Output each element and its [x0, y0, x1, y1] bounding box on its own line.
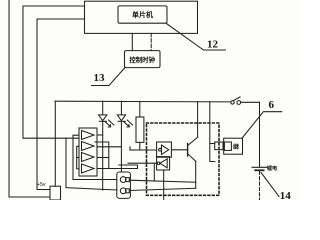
op-amp A1 [82, 131, 95, 140]
box bottom small (power module) [50, 186, 61, 200]
leader label 12 [166, 23, 226, 50]
op-amp A3 [82, 153, 95, 162]
wire +5V feed [37, 19, 85, 190]
LED D2 [120, 101, 122, 115]
box amplifier array U1 [79, 128, 97, 176]
wire top rail [55, 100, 231, 103]
svg-text:锂电: 锂电 [267, 164, 278, 172]
dashed driver module box [147, 123, 220, 195]
wire battery rail [259, 102, 261, 167]
wire emitter [195, 161, 197, 188]
svg-text:14: 14 [280, 190, 292, 200]
wire vertical feed section (x=56) [54, 101, 56, 186]
buffer U2 [157, 142, 172, 157]
wire MCU to clock (left, solid) [131, 33, 133, 50]
box loudspeakers SP1 SP2 [117, 172, 131, 198]
wire into buffer [129, 147, 131, 150]
wire collector [197, 102, 199, 138]
wire buffer U3 output left [128, 162, 157, 164]
wire drop 2 [163, 170, 165, 200]
wire amp input column b [73, 135, 117, 179]
resistor R1 [139, 101, 141, 117]
wire buffer out to base [171, 149, 187, 151]
box border pins [215, 142, 223, 150]
wire left outer (net GND) [9, 0, 50, 197]
svg-text:+5v: +5v [37, 182, 46, 188]
wire bottom bus 1 [129, 180, 195, 182]
speaker SP1 [120, 177, 126, 183]
LED D1 [102, 101, 104, 115]
leader label 14 [261, 173, 279, 197]
wire MCU to clock (right, dashed) [150, 33, 152, 50]
wire bottom bus 2 [129, 188, 195, 190]
switch S1 [231, 101, 234, 104]
op-amp A2 [82, 142, 95, 151]
svg-text:控制时钟: 控制时钟 [129, 55, 155, 64]
box relay K 继 [224, 138, 243, 154]
svg-text:13: 13 [94, 72, 106, 84]
wire from controller box to amp inputs [23, 6, 85, 138]
wire amp outputs [97, 134, 103, 136]
svg-text:12: 12 [207, 39, 219, 51]
wire amp input column a [65, 138, 67, 187]
svg-text:单片机: 单片机 [132, 10, 153, 19]
wire drop 1 [153, 163, 155, 181]
leader label 6 [242, 112, 282, 139]
wire relay drive [210, 102, 215, 162]
wire amp input stub [77, 157, 79, 159]
svg-text:6: 6 [269, 99, 275, 111]
box control clock 控制时钟 [125, 51, 161, 68]
wire mid vertical [95, 142, 109, 169]
transistor Q1 [187, 144, 189, 157]
op-amp A4 [82, 164, 95, 173]
battery B14 锂电 [252, 166, 267, 168]
buffer U3 (reverse) [157, 157, 170, 170]
box MCU 单片机 [118, 6, 167, 23]
wire amp input column c [77, 146, 79, 169]
box controller outer 12 [85, 1, 198, 33]
speaker SP2 [120, 188, 126, 194]
svg-text:继: 继 [233, 143, 239, 151]
leader label 13 [92, 68, 126, 86]
